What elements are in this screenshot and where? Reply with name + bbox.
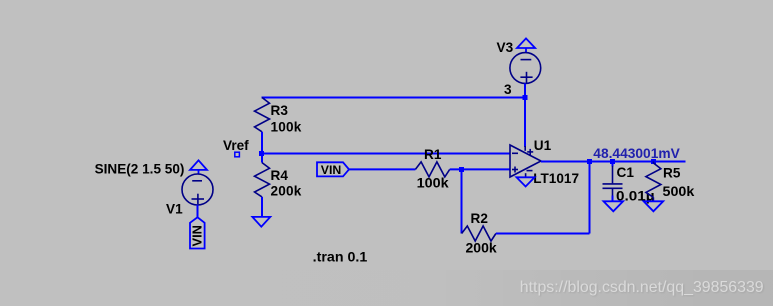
- svg-text:200k: 200k: [466, 241, 498, 256]
- wire Vref to op-amp inverting input: [262, 153, 511, 155]
- wire R2 to output vertical: [496, 233, 590, 235]
- svg-text:V1: V1: [166, 202, 183, 217]
- resistor R5: [646, 162, 661, 202]
- svg-text:C1: C1: [617, 165, 635, 180]
- resistor R2: [462, 226, 496, 241]
- svg-text:R2: R2: [471, 211, 489, 226]
- net label Vref anchor: [235, 152, 240, 157]
- svg-text:VIN: VIN: [321, 163, 342, 177]
- net flag VIN at V1: [189, 217, 204, 248]
- ground under R5: [644, 201, 664, 211]
- wire op-amp output: [541, 161, 686, 163]
- svg-text:200k: 200k: [271, 183, 302, 198]
- svg-text:SINE(2 1.5 50): SINE(2 1.5 50): [95, 161, 185, 176]
- wire VIN flag to R1: [349, 168, 415, 170]
- svg-text:LT1017: LT1017: [533, 171, 579, 186]
- junction R5 top: [651, 159, 656, 164]
- junction Vref: [259, 151, 264, 156]
- svg-text:Vref: Vref: [223, 138, 249, 153]
- junction output feedback: [587, 159, 592, 164]
- svg-text:R5: R5: [663, 165, 681, 180]
- wire junction down to R2: [461, 169, 463, 233]
- op-amp U1: [510, 145, 541, 177]
- watermark text: [520, 279, 765, 297]
- watermark band: [0, 270, 773, 306]
- ground under C1: [604, 201, 624, 211]
- svg-text:100k: 100k: [271, 119, 302, 134]
- wire node 3 down to U1 V+ pin: [524, 98, 526, 148]
- wire V3 bottom to junction: [524, 84, 526, 98]
- svg-text:V3: V3: [497, 40, 514, 55]
- svg-text:48.443001mV: 48.443001mV: [593, 146, 680, 161]
- svg-text:3: 3: [504, 82, 512, 97]
- svg-text:https://blog.csdn.net/qq_39856: https://blog.csdn.net/qq_39856339: [520, 279, 764, 296]
- svg-text:100k: 100k: [417, 176, 449, 191]
- svg-text:R3: R3: [271, 103, 289, 118]
- junction R1 output: [459, 167, 464, 172]
- resistor R1: [415, 162, 449, 177]
- ground under R4: [252, 217, 270, 227]
- svg-text:500k: 500k: [663, 184, 695, 199]
- wire top horizontal R3 to node 3: [262, 97, 526, 99]
- voltage source V1: [182, 174, 213, 205]
- ground flag rotated above V3: [517, 38, 535, 53]
- junction C1 top: [610, 159, 615, 164]
- capacitor C1: [612, 162, 614, 167]
- wire R1 to op-amp non-inverting input: [450, 168, 510, 170]
- svg-text:.tran 0.1: .tran 0.1: [313, 250, 368, 266]
- svg-text:VIN: VIN: [189, 225, 204, 246]
- svg-text:U1: U1: [534, 138, 552, 153]
- ground under op-amp: [517, 177, 535, 186]
- svg-text:R4: R4: [271, 168, 289, 183]
- ground flag rotated above V1: [190, 160, 207, 174]
- net flag VIN at input: [317, 162, 349, 177]
- voltage source V3: [510, 53, 541, 84]
- resistor R3: [255, 98, 270, 132]
- resistor R4: [261, 154, 263, 163]
- svg-text:R1: R1: [424, 147, 442, 162]
- wire vertical feedback to output: [589, 162, 591, 234]
- wire V1 bottom to VIN flag: [197, 205, 199, 218]
- junction node 3: [523, 95, 528, 100]
